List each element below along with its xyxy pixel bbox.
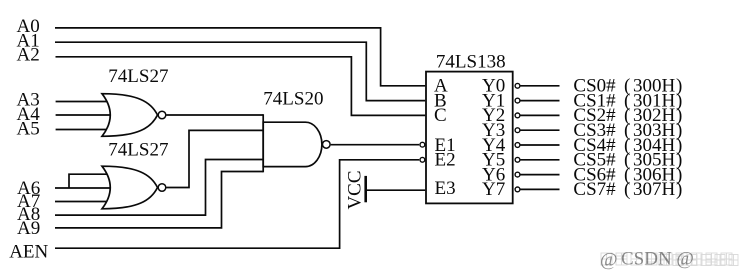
svg-text:74LS27: 74LS27	[108, 66, 168, 87]
Y3 output bubble and wire	[515, 128, 520, 133]
output bubble of NOR2	[158, 184, 166, 192]
wire A0 to input A	[55, 28, 425, 86]
wire AEN to E2	[55, 160, 419, 248]
NOR gate 74LS27 (A3 A4 A5)	[102, 94, 158, 137]
svg-text:CSDN @: CSDN @	[621, 249, 694, 270]
svg-text:C: C	[434, 105, 447, 126]
Y1 output bubble and wire	[515, 98, 520, 103]
output bubble of NAND	[323, 141, 331, 149]
wire A6 tie to top input	[69, 174, 112, 188]
wire A5	[56, 129, 112, 131]
svg-text:CS7#(307H): CS7#(307H)	[573, 179, 682, 200]
svg-text:E2: E2	[435, 150, 456, 171]
svg-text:74LS138: 74LS138	[436, 52, 506, 73]
NAND gate 74LS20 body	[263, 122, 322, 166]
wire A6	[55, 187, 112, 189]
VCC power bar	[364, 176, 367, 202]
svg-text:A5: A5	[17, 119, 40, 140]
E1 input bubble	[420, 142, 425, 147]
Y4 output bubble and wire	[515, 143, 520, 148]
E2 input bubble	[420, 157, 425, 162]
svg-text:74LS20: 74LS20	[263, 89, 323, 110]
svg-text:74LS27: 74LS27	[108, 139, 168, 160]
svg-text:A9: A9	[17, 218, 40, 239]
Y7 output bubble and wire	[515, 187, 520, 192]
Y6 output bubble and wire	[515, 172, 520, 177]
wire A8 to NAND input 3	[55, 160, 263, 216]
NOR gate 74LS27 (A6 A7)	[102, 166, 158, 209]
wire NAND output to E1	[331, 144, 420, 146]
NAND input rail	[262, 114, 264, 172]
svg-text:A2: A2	[17, 45, 40, 66]
watermark	[601, 253, 738, 266]
Y0 output bubble and wire	[515, 83, 520, 88]
IC 74LS138 box	[426, 72, 513, 204]
wire NOR2 output to NAND input 2	[166, 130, 263, 187]
wire VCC to E3	[367, 189, 426, 191]
svg-text:Y7: Y7	[482, 179, 505, 200]
svg-text:@: @	[600, 250, 618, 271]
wire A2 to input C	[56, 57, 426, 116]
wire A7	[55, 201, 112, 203]
wire A3	[56, 101, 112, 103]
wire NOR1 output to NAND input 1	[166, 114, 263, 116]
output bubble of NOR1	[158, 111, 166, 119]
wire A9 to NAND input 4	[55, 172, 263, 228]
Y2 output bubble and wire	[515, 113, 520, 118]
wire A1 to input B	[55, 42, 425, 100]
svg-text:AEN: AEN	[9, 242, 48, 263]
svg-text:VCC: VCC	[345, 170, 366, 209]
svg-text:E3: E3	[435, 178, 456, 199]
wire A4	[56, 114, 112, 116]
Y5 output bubble and wire	[515, 157, 520, 162]
